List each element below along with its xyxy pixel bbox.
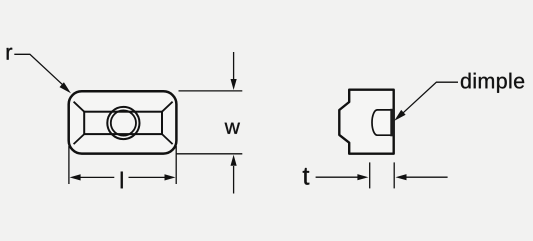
t dimension: right extension line (393, 162, 395, 188)
label l (121, 172, 123, 189)
l dimension: right extension line (175, 146, 177, 184)
arrowhead for r leader (60, 82, 71, 93)
dimple profile (half-ellipse bump with flat top/bottom) (372, 110, 392, 135)
t dimension: right arrow line (406, 176, 448, 178)
l dimension line right segment (129, 176, 166, 178)
left view: corner bevel line bottom-right (162, 134, 173, 144)
label dimple (461, 73, 524, 93)
t dimension: left arrow line (316, 176, 358, 178)
l dimension right arrowhead (points right) (165, 174, 176, 180)
arrowhead for dimple leader (points down-left at part edge) (394, 110, 405, 121)
dimple flat side dark band (390, 109, 394, 137)
t dimension: left extension line (369, 162, 371, 188)
w dimension: upper arrow line (233, 52, 235, 80)
w dimension: lower arrowhead (points up) (231, 155, 237, 166)
l dimension: left extension line (68, 146, 70, 184)
dimple leader line (399, 82, 458, 117)
w dimension: top extension line (179, 90, 243, 92)
left view: corner bevel line top-right (162, 102, 173, 112)
l dimension left arrowhead (points left) (70, 174, 81, 180)
left view: inner bevel rectangle (84, 112, 162, 134)
w dimension: upper arrowhead (points down) (231, 79, 237, 90)
left view: outer body outline (rounded rectangle) (69, 91, 177, 153)
left view: corner bevel line bottom-left (74, 134, 85, 144)
w dimension: bottom extension line (176, 153, 242, 155)
label r (7, 48, 13, 60)
w dimension: lower arrow line (233, 166, 235, 194)
t dimension: right arrowhead (points left) (396, 174, 407, 180)
left view: hole inner circle (111, 110, 136, 135)
right view: body outline (side profile with notch) (339, 90, 393, 154)
label w (225, 123, 240, 134)
left view: hole outer circle (107, 107, 139, 139)
left view: corner bevel line top-left (74, 102, 85, 112)
label t (303, 168, 310, 185)
l dimension line left segment (80, 176, 114, 178)
t dimension: left arrowhead (points right) (357, 174, 368, 180)
leader line for r (14, 54, 66, 88)
